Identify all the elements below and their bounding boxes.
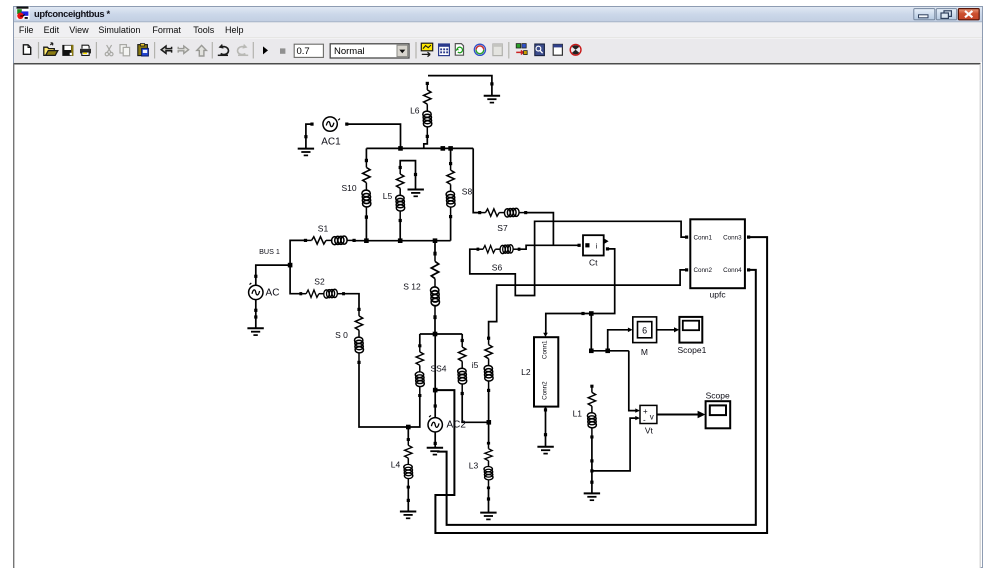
- svg-text:Format: Format: [152, 25, 181, 35]
- svg-text:S 0: S 0: [335, 330, 348, 340]
- svg-text:L5: L5: [383, 191, 393, 201]
- svg-text:S8: S8: [462, 187, 473, 197]
- svg-text:S7: S7: [497, 223, 508, 233]
- svg-text:S10: S10: [341, 183, 356, 193]
- svg-text:Help: Help: [225, 25, 244, 35]
- svg-text:Simulation: Simulation: [98, 25, 140, 35]
- svg-text:AC2: AC2: [446, 420, 466, 431]
- svg-text:upfc: upfc: [710, 290, 727, 300]
- svg-text:Conn1: Conn1: [542, 340, 549, 359]
- svg-text:Edit: Edit: [44, 25, 60, 35]
- svg-text:Scope1: Scope1: [677, 345, 706, 355]
- svg-text:Normal: Normal: [334, 46, 365, 57]
- svg-text:-: -: [643, 416, 646, 425]
- svg-text:6: 6: [642, 326, 647, 336]
- svg-text:S1: S1: [318, 224, 329, 234]
- svg-text:upfconceightbus *: upfconceightbus *: [34, 8, 111, 19]
- svg-text:Scope: Scope: [706, 390, 730, 400]
- svg-text:S 12: S 12: [403, 282, 421, 292]
- svg-text:v: v: [650, 413, 654, 422]
- svg-text:Vt: Vt: [645, 426, 654, 436]
- svg-text:0.7: 0.7: [297, 46, 310, 57]
- svg-text:S6: S6: [492, 263, 503, 273]
- svg-text:S2: S2: [314, 276, 325, 286]
- svg-text:File: File: [19, 25, 34, 35]
- svg-text:Conn2: Conn2: [694, 267, 713, 274]
- svg-text:L6: L6: [410, 106, 420, 116]
- svg-text:L3: L3: [469, 461, 479, 471]
- svg-text:M: M: [641, 347, 648, 357]
- svg-text:BUS 1: BUS 1: [259, 247, 280, 256]
- svg-text:L4: L4: [391, 460, 401, 470]
- svg-text:Conn4: Conn4: [723, 267, 742, 274]
- svg-text:i5: i5: [472, 360, 479, 370]
- svg-text:View: View: [69, 25, 89, 35]
- svg-text:Conn3: Conn3: [723, 234, 742, 241]
- svg-text:SS4: SS4: [430, 364, 446, 374]
- svg-text:L1: L1: [573, 409, 583, 419]
- svg-text:Conn2: Conn2: [542, 381, 549, 400]
- svg-text:Tools: Tools: [193, 25, 215, 35]
- svg-text:AC: AC: [266, 287, 280, 298]
- svg-text:L2: L2: [521, 367, 531, 377]
- svg-text:Conn1: Conn1: [694, 234, 713, 241]
- svg-text:Ct: Ct: [589, 258, 598, 268]
- svg-text:AC1: AC1: [321, 137, 341, 148]
